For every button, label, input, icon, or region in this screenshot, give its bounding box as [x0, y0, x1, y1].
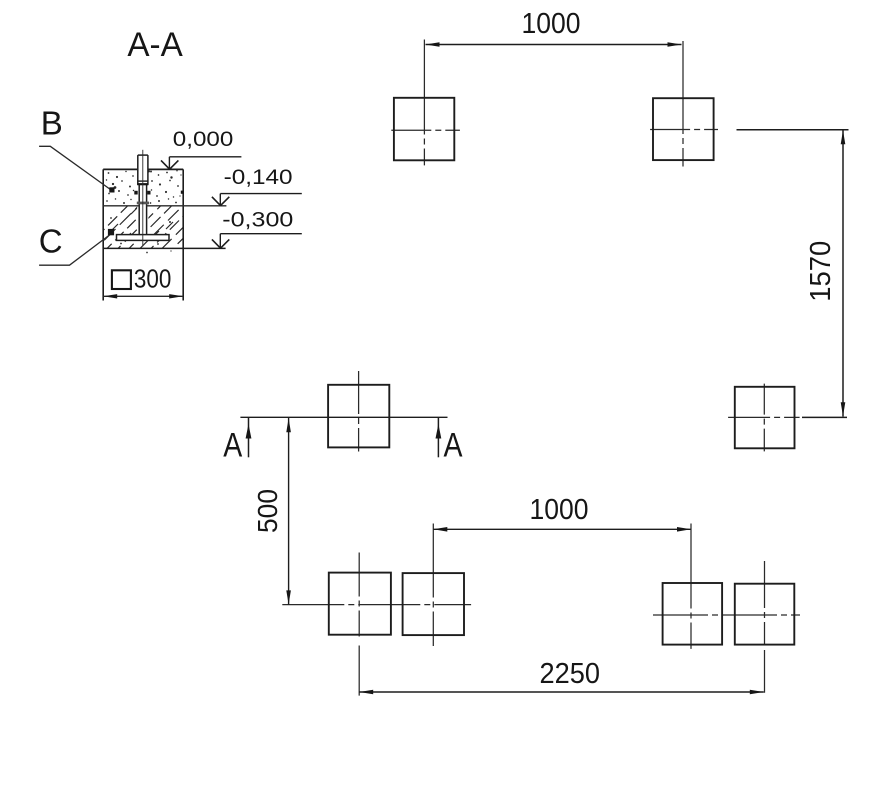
dimension 500 (left, section line to bottom pads) [252, 418, 291, 605]
anchor plate (bearing plate at bolt bottom) [117, 235, 170, 241]
section title A-A [127, 26, 183, 64]
foundation pad F8 (bottom-right outer) [735, 584, 795, 645]
dimension 1000 (lower middle) [433, 494, 691, 532]
label B [41, 104, 63, 141]
weld square C [108, 229, 114, 235]
svg-text:0,000: 0,000 [173, 128, 234, 151]
foundation pad F6 (bottom-left inner) [403, 573, 464, 635]
shared horizontal centerline pads F5-F6 (extends to 500 dim) [282, 604, 471, 606]
centerline pad F5 vertical (also extension of 2250 dim) [358, 553, 360, 696]
centerline pad F3 vertical [358, 371, 360, 452]
weld mark square on right block edge [181, 191, 184, 194]
bolt washer squares [134, 191, 150, 195]
svg-text:B: B [41, 104, 63, 141]
svg-text:A-A: A-A [127, 26, 183, 64]
centerline pad F4 horizontal [728, 416, 800, 418]
level mark 0,000 [161, 128, 241, 169]
centerline pad F4 vertical [763, 384, 765, 452]
centerline pad F2 horizontal [650, 129, 718, 131]
svg-text:A: A [223, 427, 242, 465]
centerline pad F1 vertical (also extension of top 1000 dim) [423, 40, 425, 166]
grout band on bolt [137, 202, 149, 205]
section letter A right [444, 427, 463, 465]
centerline pad F1 horizontal [391, 129, 460, 131]
section arrow right [436, 418, 442, 457]
anchor bolt rod white background [137, 155, 148, 235]
svg-text:-0,140: -0,140 [224, 166, 293, 189]
svg-text:A: A [444, 427, 463, 465]
svg-text:1000: 1000 [530, 494, 589, 526]
svg-text:300: 300 [134, 266, 171, 294]
svg-text:500: 500 [252, 489, 283, 533]
anchor bolt rod outlines [138, 155, 148, 235]
label C [39, 223, 63, 260]
boundary line at level -0,140 [103, 205, 226, 207]
leader from B [39, 146, 111, 189]
bolt nut band [137, 183, 148, 185]
foundation pad F4 (middle-right) [735, 387, 795, 449]
foundation pad F7 (bottom-right inner) [663, 583, 723, 645]
concrete stipple dots (section block upper layer) [106, 170, 182, 253]
dimension 1570 (right) [737, 130, 849, 418]
level mark -0,140 [212, 166, 302, 206]
foundation pad F5 (bottom-left outer) [329, 573, 391, 635]
svg-text:-0,300: -0,300 [222, 208, 293, 231]
dimension 300 with square symbol [103, 266, 183, 299]
section cut line A-A [240, 416, 447, 418]
leader from C [39, 234, 110, 265]
foundation pad F1 (top-left) [394, 98, 454, 161]
foundation block outline (section) [103, 169, 183, 300]
shared horizontal centerline pads F7-F8 [653, 614, 800, 616]
bolt axis centerline [142, 150, 144, 246]
svg-text:2250: 2250 [540, 658, 601, 690]
foundation pad F3 (middle-left, on section line) [328, 385, 389, 448]
centerline pad F2 vertical (also extension of top 1000 dim) [682, 41, 684, 167]
section letter A left [223, 427, 242, 465]
centerline pad F8 vertical (also extension of 2250 dim) [764, 561, 766, 693]
bottom line of hatch at level -0,300 [103, 247, 225, 249]
svg-text:1000: 1000 [522, 8, 581, 40]
weld square B [109, 187, 114, 192]
bolt joint line [137, 180, 148, 182]
hatch: grout layer of foundation section [84, 206, 216, 250]
centerline pad F7 vertical (also extension of lower 1000 dim) [690, 524, 692, 649]
level mark -0,300 [212, 208, 302, 248]
svg-text:1570: 1570 [805, 241, 837, 302]
foundation pad F2 (top-right) [653, 98, 714, 160]
centerline pad F6 vertical (also extension of lower 1000 dim) [432, 524, 434, 647]
dimension 1000 (top) [426, 8, 682, 47]
dimension 2250 (bottom) [359, 658, 764, 694]
section arrow left [246, 418, 252, 457]
svg-text:C: C [39, 223, 63, 260]
